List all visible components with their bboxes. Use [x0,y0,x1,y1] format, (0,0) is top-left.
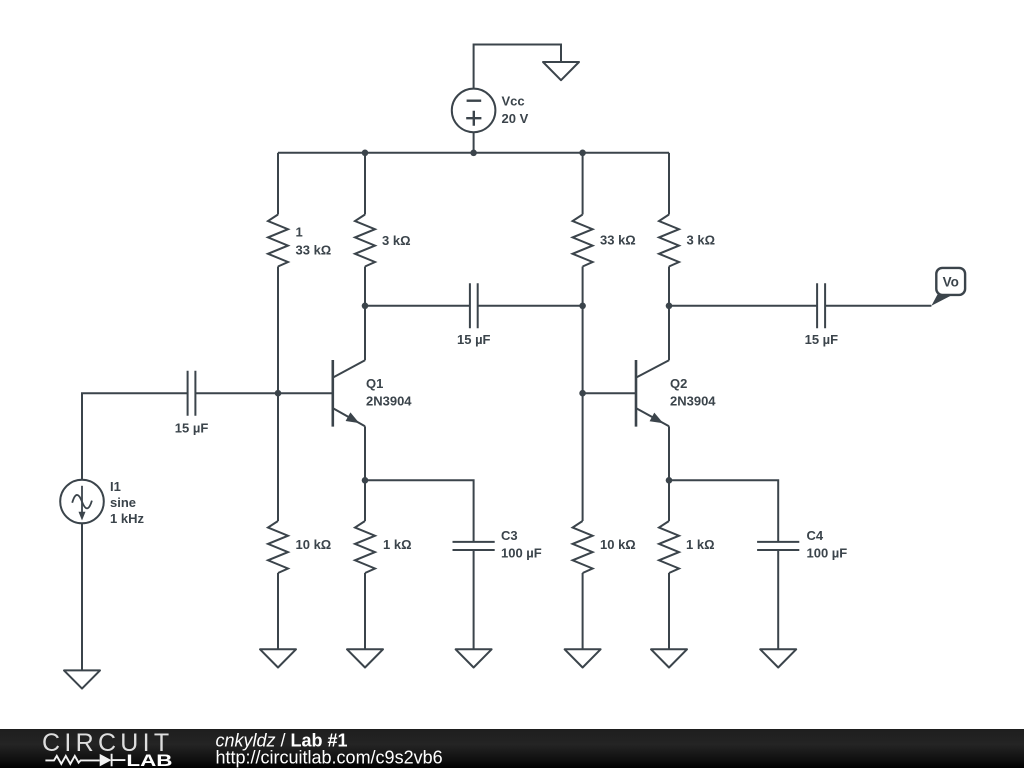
node rail/R2 junction [362,150,369,157]
transistor Q1 2N3904 [333,360,365,427]
svg-text:C3: C3 [501,528,518,543]
svg-text:Vo: Vo [943,275,959,290]
wire Q1 emitter to C3 [365,480,474,542]
label C4 100 uF [807,528,848,561]
resistor R7 10 k&#937; [573,521,593,573]
svg-text:3 kΩ: 3 kΩ [687,232,716,247]
svg-text:33 kΩ: 33 kΩ [296,242,332,257]
transistor Q2 2N3904 [636,360,669,427]
wire rail to R6 [582,153,584,215]
current source I1 sine [60,480,104,524]
wire R8 to Q2 collector [668,267,670,361]
resistor R9 1 k&#937; [659,521,679,573]
label I1 sine 1 kHz [110,479,144,526]
wire supply rail [278,152,669,154]
capacitor C5 15 uF (output coupling) [817,283,825,328]
svg-text:http://circuitlab.com/c9s2vb6: http://circuitlab.com/c9s2vb6 [216,747,443,767]
wire R5 to ground [364,573,366,649]
node Q2 base junction [579,390,586,397]
svg-text:I1: I1 [110,479,121,494]
node rail/R6 junction [579,150,586,157]
wire R1 to Q1 base node to R3 [277,267,279,522]
wire Q2 base [583,392,636,394]
svg-text:100 µF: 100 µF [501,546,542,561]
resistor R5 1 k&#937; [355,521,375,573]
node C2/R6 junction [579,303,586,310]
resistor R8 3 k&#937; [659,215,679,267]
wire C1 to Q1 base [195,392,332,394]
svg-text:10 kΩ: 10 kΩ [600,537,636,552]
svg-text:10 kΩ: 10 kΩ [296,537,332,552]
svg-text:33 kΩ: 33 kΩ [600,232,636,247]
wire C3 to ground [473,550,475,649]
capacitor C2 15 uF (interstage coupling) [470,283,478,328]
ground (R3) [260,649,296,667]
footer bar [0,729,1024,768]
label Vcc 20 V [502,94,529,127]
wire R2 to Q1 collector [364,267,366,361]
ground (C4) [760,649,796,667]
label Q2 2N3904 [670,376,716,408]
svg-text:2N3904: 2N3904 [670,393,716,408]
wire R6 to Q2 base node to R7 [582,267,584,522]
svg-text:15 µF: 15 µF [805,332,839,347]
wire Q1 emitter down to R5 [364,426,366,521]
wire rail to R2 [364,153,366,215]
wire R3 to ground [277,573,279,649]
wire Q2 emitter down to R9 [668,426,670,521]
wire rail to R8 [668,153,670,215]
svg-text:2N3904: 2N3904 [366,393,412,408]
wire output node to C5 [669,305,817,307]
svg-text:15 µF: 15 µF [457,332,491,347]
wire C5 to Vo flag [825,305,931,307]
ground (R7) [565,649,601,667]
svg-text:1: 1 [296,225,303,240]
label C3 100 uF [501,528,542,561]
CircuitLab logo resistor-diode symbol [45,753,125,766]
wire Vcc to supply rail [473,132,475,153]
node rail/Vcc junction [470,150,477,157]
svg-text:LAB: LAB [126,751,172,768]
label R1 value 1 / 33 kOhm [296,225,332,258]
capacitor C1 15 uF (input coupling) [188,371,196,416]
svg-text:sine: sine [110,495,136,510]
wire Vcc top to ground [474,45,561,89]
wire Q1 collector to C2 [365,305,470,307]
svg-text:1 kHz: 1 kHz [110,511,144,526]
node Q1 emitter junction [362,477,369,484]
svg-text:15 µF: 15 µF [175,421,209,436]
wire R7 to ground [582,573,584,649]
svg-text:1 kΩ: 1 kΩ [383,537,412,552]
svg-text:1 kΩ: 1 kΩ [686,537,715,552]
wire I1 to ground [81,523,83,670]
svg-text:Q2: Q2 [670,376,687,391]
capacitor C4 100 uF [757,542,799,550]
ground (C3) [456,649,492,667]
resistor R1 33 k&#937; [268,215,288,267]
resistor R2 3 k&#937; [355,215,375,267]
node Q2 emitter junction [666,477,673,484]
node Q1 collector junction [362,303,369,310]
svg-text:C4: C4 [807,528,824,543]
resistor R3 10 k&#937; [268,521,288,573]
ground (top, supply return) [543,62,579,80]
svg-text:Q1: Q1 [366,376,383,391]
wire rail to R1 [277,153,279,215]
voltage source Vcc [452,89,496,133]
resistor R6 33 k&#937; [573,215,593,267]
wire Q2 emitter to C4 [669,480,778,542]
wire C4 to ground [777,550,779,649]
capacitor C3 100 uF [453,542,495,550]
label Q1 2N3904 [366,376,412,408]
CircuitLab logo wordmark [42,729,173,768]
node Vo (output terminal flag) [931,268,965,306]
svg-text:100 µF: 100 µF [807,546,848,561]
wire C2 to Q2 base column [478,305,583,307]
ground (I1) [64,670,100,688]
svg-text:20 V: 20 V [502,111,529,126]
svg-text:Vcc: Vcc [502,94,525,109]
ground (R9) [651,649,687,667]
node Q1 base junction [275,390,282,397]
ground (R5) [347,649,383,667]
wire I1 to input cap C1 [82,393,188,479]
node Q2 collector / output junction [666,303,673,310]
svg-text:3 kΩ: 3 kΩ [382,233,411,248]
wire R9 to ground [668,573,670,649]
